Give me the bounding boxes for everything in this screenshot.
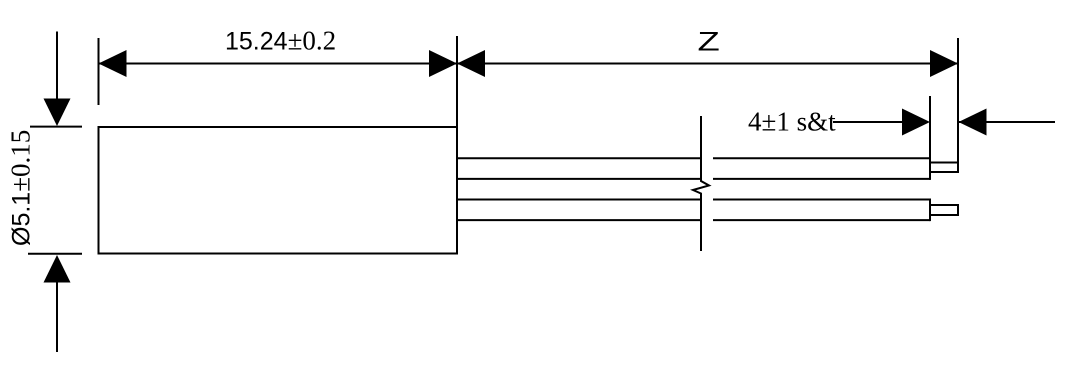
tick line top left (30, 126, 82, 128)
arrowhead up (Ø dim bottom) (44, 255, 71, 283)
lead 2 end cap (929, 199, 931, 222)
lead 2 top line (left of break) (457, 199, 701, 201)
lead 1 end cap (929, 157, 931, 180)
lead 2 bottom line (left of break) (457, 219, 701, 221)
arrowhead Z right (930, 50, 958, 77)
opposing arrow tail (959, 121, 1056, 123)
tick line bottom left (28, 253, 82, 255)
svg-text:Ø5.1±0.15: Ø5.1±0.15 (6, 130, 36, 246)
lead 1 top line (left of break) (457, 157, 701, 159)
svg-text:Z: Z (698, 26, 720, 56)
horizontal dimension line (99, 63, 959, 65)
break line with zigzag (693, 116, 709, 251)
arrowhead 15.24 left (99, 50, 127, 77)
lead 2 top line (right of break) (713, 199, 930, 201)
lead 1 top line (right of break) (713, 157, 930, 159)
lead 1 tip (930, 163, 958, 173)
arrowhead 4±1 (902, 109, 930, 136)
extension line at lead end (929, 96, 931, 158)
lead 2 bottom line (right of break) (713, 219, 930, 221)
lead 2 tip (930, 205, 958, 215)
extension line at body right (456, 36, 458, 127)
extension line at tip end (957, 38, 959, 163)
extension line at body left (98, 38, 100, 105)
lead 1 bottom line (right of break) (713, 178, 930, 180)
arrowhead 15.24 right (429, 50, 457, 77)
svg-text:4±1 s&t: 4±1 s&t (748, 107, 836, 137)
component body rectangle (99, 127, 458, 254)
svg-text:15.24±0.2: 15.24±0.2 (225, 26, 336, 56)
lead 1 bottom line (left of break) (457, 178, 701, 180)
vertical arrow shaft top (56, 32, 58, 106)
4±1 dimension shaft (833, 121, 912, 123)
arrowhead down (Ø dim top) (44, 99, 71, 127)
arrowhead Z left (457, 50, 485, 77)
vertical arrow shaft bottom (56, 278, 58, 352)
arrowhead opposing (959, 109, 987, 136)
